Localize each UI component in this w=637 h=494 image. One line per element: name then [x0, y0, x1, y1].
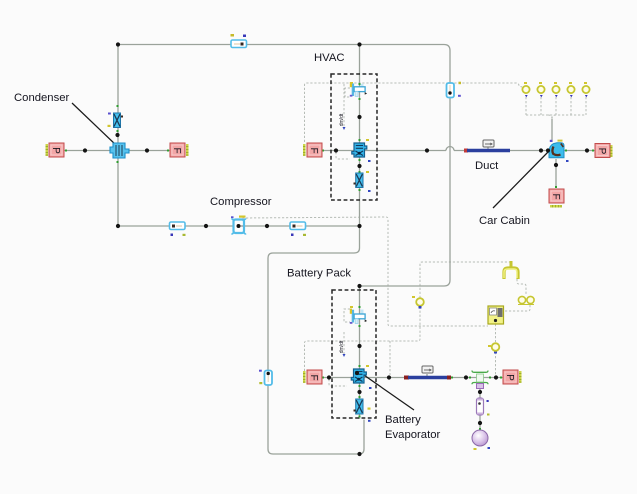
svg-text:Battery: Battery: [385, 414, 421, 426]
svg-text:Car Cabin: Car Cabin: [479, 215, 530, 227]
svg-text:Evaporator: Evaporator: [385, 429, 440, 441]
svg-text:Battery Pack: Battery Pack: [287, 268, 351, 280]
svg-text:HVAC: HVAC: [314, 52, 345, 64]
svg-text:dm/dt: dm/dt: [339, 340, 345, 353]
svg-text:F: F: [550, 193, 561, 199]
svg-text:Compressor: Compressor: [210, 196, 272, 208]
svg-text:P: P: [50, 147, 61, 154]
svg-text:F: F: [308, 147, 319, 153]
svg-text:F: F: [171, 147, 182, 153]
svg-text:P: P: [504, 374, 515, 381]
svg-text:dm/dt: dm/dt: [339, 113, 345, 126]
svg-text:P: P: [596, 148, 607, 155]
svg-text:Duct: Duct: [475, 160, 499, 172]
svg-text:F: F: [308, 374, 319, 380]
svg-text:Condenser: Condenser: [14, 92, 70, 104]
